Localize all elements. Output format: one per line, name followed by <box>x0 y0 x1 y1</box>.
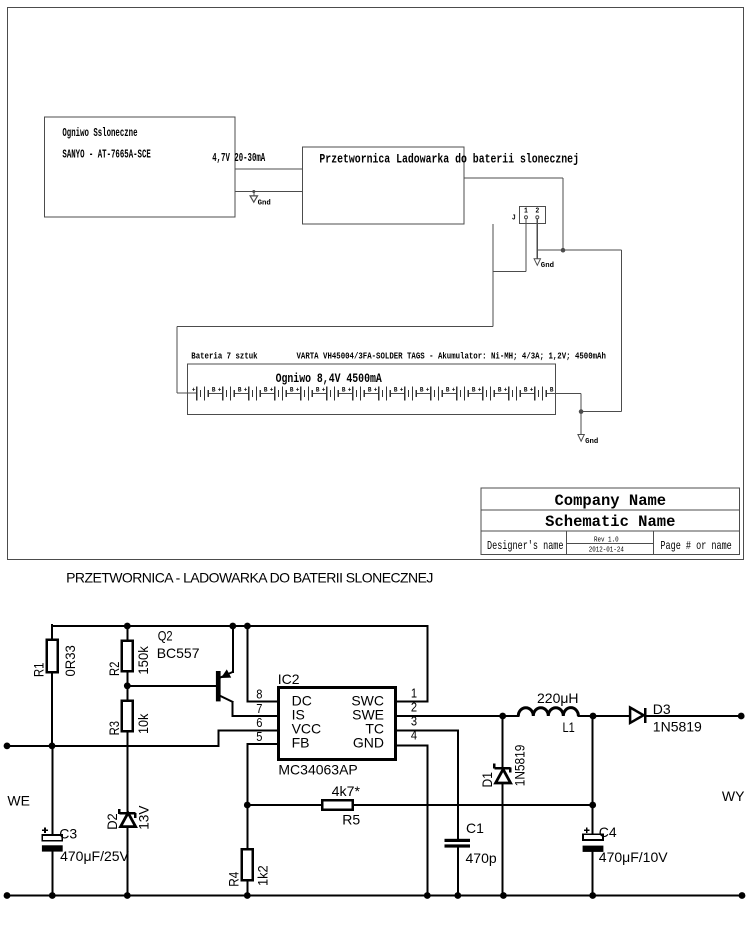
svg-text:C1: C1 <box>466 820 484 836</box>
svg-text:150k: 150k <box>135 645 151 674</box>
svg-text:FB: FB <box>292 734 310 750</box>
svg-text:Gnd: Gnd <box>541 262 554 270</box>
svg-text:Bateria 7 sztuk: Bateria 7 sztuk <box>191 351 258 361</box>
svg-text:R2: R2 <box>106 661 122 676</box>
svg-text:Ogniwo Ssloneczne: Ogniwo Ssloneczne <box>62 126 137 140</box>
svg-text:Przetwornica Ladowarka do bate: Przetwornica Ladowarka do baterii slonec… <box>319 151 579 166</box>
svg-text:GND: GND <box>353 734 384 750</box>
svg-text:WE: WE <box>7 793 30 809</box>
svg-text:4: 4 <box>411 727 417 742</box>
svg-text:7: 7 <box>256 701 262 716</box>
svg-text:2: 2 <box>535 208 539 216</box>
svg-text:8: 8 <box>256 687 262 702</box>
svg-text:R1: R1 <box>31 662 47 677</box>
svg-text:0R33: 0R33 <box>62 645 78 677</box>
svg-text:5: 5 <box>256 729 262 744</box>
svg-text:470p: 470p <box>466 850 497 866</box>
svg-text:WY: WY <box>722 788 745 804</box>
svg-text:MC34063AP: MC34063AP <box>278 762 357 778</box>
svg-text:2: 2 <box>411 699 417 714</box>
svg-text:C4: C4 <box>599 824 617 840</box>
svg-text:3: 3 <box>411 713 417 728</box>
svg-text:6: 6 <box>256 715 262 730</box>
svg-text:Rev 1.0: Rev 1.0 <box>594 536 619 544</box>
svg-text:Gnd: Gnd <box>585 438 598 446</box>
svg-text:R5: R5 <box>342 811 360 827</box>
svg-text:Gnd: Gnd <box>258 200 271 208</box>
svg-text:10k: 10k <box>135 713 151 734</box>
svg-text:1: 1 <box>411 685 417 700</box>
svg-text:R3: R3 <box>106 721 122 736</box>
svg-text:IC2: IC2 <box>278 671 300 687</box>
svg-text:4k7*: 4k7* <box>332 783 361 799</box>
svg-text:1N5819: 1N5819 <box>653 719 702 735</box>
svg-text:VARTA VH45004/3FA-SOLDER TAGS: VARTA VH45004/3FA-SOLDER TAGS - Akumulat… <box>297 351 606 361</box>
svg-text:J: J <box>512 215 516 223</box>
svg-text:BC557: BC557 <box>157 645 200 661</box>
svg-text:Ogniwo 8,4V 4500mA: Ogniwo 8,4V 4500mA <box>276 371 382 386</box>
svg-text:PRZETWORNICA - LADOWARKA DO BA: PRZETWORNICA - LADOWARKA DO BATERII SLON… <box>66 570 433 586</box>
svg-text:13V: 13V <box>136 805 152 830</box>
svg-text:D1: D1 <box>479 772 495 788</box>
svg-text:R4: R4 <box>226 872 242 887</box>
svg-text:470μF/10V: 470μF/10V <box>599 849 668 865</box>
svg-text:1N5819: 1N5819 <box>511 744 527 786</box>
svg-text:SANYO - AT-7665A-SCE: SANYO - AT-7665A-SCE <box>62 147 150 161</box>
svg-text:Page # or name: Page # or name <box>660 539 731 553</box>
svg-text:Schematic Name: Schematic Name <box>545 513 675 531</box>
svg-text:4,7V 20-30mA: 4,7V 20-30mA <box>212 151 265 165</box>
svg-text:1k2: 1k2 <box>255 865 271 886</box>
svg-text:Designer's name: Designer's name <box>487 539 564 553</box>
svg-text:220μH: 220μH <box>537 690 579 706</box>
svg-text:2012-01-24: 2012-01-24 <box>589 547 624 555</box>
svg-text:Company Name: Company Name <box>554 492 666 510</box>
svg-text:L1: L1 <box>563 719 575 735</box>
svg-text:470μF/25V: 470μF/25V <box>60 848 129 864</box>
svg-text:1: 1 <box>524 208 528 216</box>
svg-text:D3: D3 <box>653 701 671 717</box>
svg-text:C3: C3 <box>59 826 77 842</box>
svg-text:Q2: Q2 <box>158 627 173 643</box>
svg-text:D2: D2 <box>104 813 120 830</box>
